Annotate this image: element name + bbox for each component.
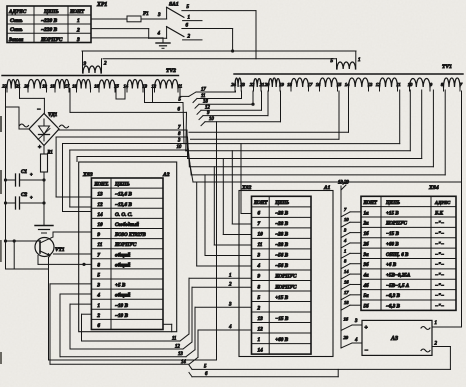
svg-text:13,29: 13,29 [338, 181, 349, 186]
svg-text:КОРПУС: КОРПУС [40, 37, 63, 43]
svg-text:14: 14 [258, 347, 264, 353]
svg-text:12: 12 [152, 84, 157, 89]
svg-text:4б: 4б [363, 282, 370, 289]
svg-text:Сеть: Сеть [10, 27, 23, 33]
svg-text:11: 11 [201, 94, 205, 99]
svg-text:11: 11 [396, 82, 400, 87]
svg-text:ЦЕПЬ: ЦЕПЬ [43, 9, 59, 15]
svg-text:+: + [365, 325, 368, 331]
svg-text:5: 5 [258, 295, 261, 301]
svg-text:3: 3 [257, 253, 261, 259]
svg-text:17: 17 [308, 82, 313, 87]
svg-text:10: 10 [258, 232, 264, 238]
svg-text:10: 10 [344, 217, 349, 222]
svg-text:2: 2 [257, 305, 261, 311]
svg-text:6: 6 [258, 211, 261, 217]
svg-text:16: 16 [316, 82, 321, 87]
svg-text:~10 В: ~10 В [115, 303, 128, 309]
svg-text:1б: 1б [364, 230, 370, 237]
svg-text:+: + [38, 145, 41, 151]
svg-text:15: 15 [337, 82, 342, 87]
svg-text:АДРЕС: АДРЕС [434, 200, 451, 205]
svg-text:VТ1: VТ1 [55, 247, 65, 253]
svg-text:12: 12 [258, 326, 264, 332]
svg-text:5б: 5б [364, 303, 370, 310]
svg-text:2: 2 [96, 313, 100, 319]
svg-text:~28 В: ~28 В [275, 232, 288, 238]
svg-text:11: 11 [172, 337, 176, 342]
svg-text:18: 18 [50, 84, 55, 89]
svg-text:9: 9 [97, 232, 100, 238]
svg-text:−"−: −"− [435, 252, 444, 258]
svg-text:29: 29 [344, 335, 349, 340]
svg-text:13: 13 [258, 316, 264, 322]
svg-text:АДРЕС: АДРЕС [8, 9, 27, 15]
svg-text:10: 10 [408, 82, 413, 87]
svg-text:SA1: SA1 [169, 2, 179, 8]
svg-text:+5В−0,25А: +5В−0,25А [386, 272, 411, 278]
svg-text:ХР1: ХР1 [96, 2, 107, 8]
svg-text:−"−: −"− [435, 221, 444, 227]
svg-text:16: 16 [72, 84, 77, 89]
svg-text:5а: 5а [364, 293, 370, 299]
svg-text:8: 8 [97, 262, 100, 268]
svg-text:10: 10 [177, 145, 182, 150]
svg-text:ТV1: ТV1 [442, 64, 452, 70]
svg-text:+15 В: +15 В [275, 295, 288, 301]
svg-text:5: 5 [97, 273, 100, 279]
svg-text:КОРПУС: КОРПУС [385, 221, 408, 227]
svg-text:13: 13 [368, 82, 373, 87]
svg-text:Сеть: Сеть [10, 18, 23, 24]
svg-text:~220 В: ~220 В [41, 27, 58, 33]
svg-text:~6,3 В: ~6,3 В [386, 304, 401, 310]
svg-text:19: 19 [42, 84, 47, 89]
svg-text:17: 17 [201, 88, 206, 93]
svg-text:17: 17 [344, 290, 349, 295]
svg-text:КОНТ: КОНТ [253, 201, 268, 206]
svg-text:ОБЩ. 6 В: ОБЩ. 6 В [386, 252, 409, 258]
svg-text:~10 В: ~10 В [115, 313, 128, 319]
svg-text:18: 18 [344, 300, 349, 305]
svg-text:F1: F1 [142, 11, 149, 17]
svg-text:~6,3 В: ~6,3 В [386, 293, 401, 299]
svg-text:1: 1 [229, 273, 232, 278]
svg-text:ЦЕПЬ: ЦЕПЬ [274, 201, 289, 206]
svg-text:3а: 3а [363, 252, 370, 258]
svg-text:1а: 1а [364, 210, 370, 216]
svg-text:О. О. С.: О. О. С. [115, 212, 132, 218]
svg-text:~12,6 В: ~12,6 В [115, 192, 132, 198]
svg-text:ХS4: ХS4 [428, 185, 439, 191]
svg-text:16: 16 [94, 84, 99, 89]
svg-text:1: 1 [344, 248, 346, 253]
svg-text:~56 В: ~56 В [275, 263, 288, 269]
svg-text:20: 20 [24, 84, 29, 89]
svg-text:7: 7 [258, 221, 261, 227]
svg-text:+6 В: +6 В [386, 262, 397, 268]
svg-text:КОРПУС: КОРПУС [274, 284, 297, 290]
svg-text:24: 24 [231, 82, 236, 87]
svg-text:12: 12 [175, 345, 180, 350]
svg-text:2: 2 [76, 27, 80, 33]
svg-text:18: 18 [203, 100, 208, 105]
svg-text:17: 17 [65, 84, 70, 89]
svg-text:общий: общий [115, 261, 130, 268]
svg-text:+: + [30, 195, 33, 200]
svg-text:−"−: −"− [435, 283, 444, 289]
svg-text:3: 3 [76, 37, 80, 43]
svg-text:+15 В: +15 В [386, 210, 399, 216]
svg-text:22: 22 [250, 82, 255, 87]
svg-text:13: 13 [178, 352, 183, 357]
svg-text:15: 15 [114, 84, 119, 89]
svg-text:КОРПУС: КОРПУС [114, 242, 137, 248]
svg-text:13: 13 [97, 192, 103, 198]
svg-text:ТV2: ТV2 [166, 68, 176, 74]
svg-text:2б: 2б [363, 240, 370, 247]
svg-text:ХS3: ХS3 [82, 172, 93, 178]
svg-text:23: 23 [240, 82, 245, 87]
svg-text:−15 В: −15 В [275, 316, 289, 322]
svg-text:−15 В: −15 В [386, 231, 399, 237]
svg-text:7: 7 [97, 252, 100, 258]
svg-text:20: 20 [265, 82, 270, 87]
svg-text:4: 4 [96, 293, 100, 299]
svg-text:1: 1 [435, 321, 437, 326]
svg-text:4: 4 [257, 263, 261, 269]
svg-text:10: 10 [97, 222, 103, 228]
svg-text:−"−: −"− [435, 293, 444, 299]
svg-text:~28 В: ~28 В [275, 211, 288, 217]
svg-text:А1: А1 [323, 185, 331, 191]
svg-text:−: − [365, 348, 369, 354]
svg-text:4а: 4а [363, 272, 370, 278]
svg-text:2а: 2а [363, 221, 370, 227]
svg-text:БОЗО КТ827В: БОЗО КТ827В [114, 233, 147, 238]
svg-text:9: 9 [258, 274, 261, 280]
svg-text:16: 16 [344, 279, 349, 284]
svg-text:КОРПУС: КОРПУС [274, 274, 297, 280]
svg-text:1: 1 [258, 337, 261, 343]
svg-text:18: 18 [287, 82, 292, 87]
svg-text:Свободный: Свободный [115, 222, 139, 228]
svg-text:~56 В: ~56 В [275, 253, 288, 259]
svg-text:1: 1 [77, 18, 80, 24]
svg-text:1: 1 [97, 303, 100, 309]
svg-text:−"−: −"− [435, 231, 444, 237]
svg-text:10: 10 [209, 117, 214, 122]
svg-text:КОНТ: КОНТ [69, 9, 85, 15]
svg-text:19: 19 [279, 82, 284, 87]
svg-text:C2: C2 [21, 192, 27, 198]
svg-text:−"−: −"− [435, 262, 444, 268]
svg-text:R1: R1 [47, 151, 53, 156]
svg-text:16: 16 [344, 317, 349, 322]
svg-text:13: 13 [143, 84, 148, 89]
svg-text:~28 В: ~28 В [275, 221, 288, 227]
svg-text:+5 В: +5 В [115, 283, 126, 289]
svg-text:ЦЕПЬ: ЦЕПЬ [114, 182, 130, 188]
svg-text:А2: А2 [162, 172, 170, 178]
svg-text:14: 14 [97, 212, 103, 218]
svg-text:общий: общий [115, 292, 130, 299]
svg-text:3: 3 [96, 283, 100, 289]
svg-text:1: 1 [358, 58, 361, 63]
svg-text:КОНТ.: КОНТ. [93, 183, 108, 188]
svg-text:КОНТ: КОНТ [363, 201, 378, 206]
svg-text:12: 12 [97, 202, 103, 208]
svg-text:+60 В: +60 В [386, 241, 399, 247]
svg-text:11: 11 [97, 242, 102, 248]
svg-text:А3: А3 [390, 336, 398, 342]
svg-text:22: 22 [2, 84, 7, 89]
svg-text:+: + [30, 172, 33, 177]
svg-text:8: 8 [258, 284, 261, 290]
svg-text:1: 1 [188, 15, 191, 20]
svg-text:+60 В: +60 В [275, 337, 288, 343]
svg-text:21: 21 [16, 84, 21, 89]
svg-text:~220 В: ~220 В [41, 18, 58, 24]
svg-text:C1: C1 [21, 169, 27, 175]
svg-text:6: 6 [97, 323, 100, 329]
svg-text:−"−: −"− [435, 304, 444, 310]
svg-text:14: 14 [345, 82, 350, 87]
svg-text:VД1: VД1 [48, 113, 57, 118]
svg-text:11: 11 [178, 84, 182, 89]
svg-text:ЦЕПЬ: ЦЕПЬ [385, 201, 400, 206]
svg-text:~12,6 В: ~12,6 В [115, 202, 132, 208]
svg-text:Б.К: Б.К [434, 210, 444, 216]
svg-text:ХS2: ХS2 [241, 185, 252, 191]
svg-text:−"−: −"− [435, 241, 444, 247]
svg-text:общий: общий [115, 251, 130, 258]
svg-text:−: − [37, 107, 41, 113]
svg-text:11: 11 [258, 242, 263, 248]
svg-text:14: 14 [344, 269, 349, 274]
svg-text:−"−: −"− [435, 272, 444, 278]
svg-text:−5В−1,5 А: −5В−1,5 А [386, 283, 410, 289]
svg-text:Земля: Земля [8, 37, 23, 43]
svg-text:12: 12 [376, 82, 381, 87]
svg-text:21: 21 [260, 82, 265, 87]
svg-text:12: 12 [205, 106, 210, 111]
svg-text:3б: 3б [363, 261, 370, 268]
svg-text:14: 14 [124, 84, 129, 89]
svg-text:~28 В: ~28 В [275, 242, 288, 248]
svg-text:14: 14 [181, 360, 186, 365]
